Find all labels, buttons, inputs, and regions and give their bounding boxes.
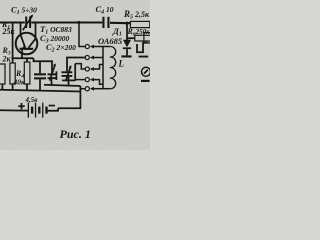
- svg-text:C1 5÷30: C1 5÷30: [11, 5, 37, 17]
- plug pin arrow 2: [93, 57, 104, 59]
- battery minus sign: [49, 105, 55, 107]
- wire R1 column: [12, 23, 14, 59]
- svg-text:4,5в: 4,5в: [25, 96, 38, 104]
- svg-text:25к: 25к: [2, 27, 16, 36]
- plug pin arrow 4: [94, 80, 104, 85]
- capacitor C3: [39, 61, 41, 73]
- bar upper right: [139, 56, 149, 58]
- capacitor C2b trimmer: [67, 58, 85, 72]
- telephone box: [144, 33, 151, 43]
- wire cluster ground G1: [44, 85, 80, 86]
- svg-text:C2 2×200: C2 2×200: [46, 42, 76, 54]
- socket ring: [142, 67, 151, 76]
- svg-text:40к: 40к: [13, 78, 26, 87]
- capacitor C4: [102, 17, 109, 28]
- wire base bus: [12, 57, 34, 59]
- capacitor C2a trimmer: [51, 61, 53, 73]
- telephone jack wire: [137, 43, 148, 53]
- connector contact 3: [75, 64, 85, 69]
- battery B 4.5V: [28, 103, 48, 118]
- wire R2 stub: [12, 84, 14, 90]
- plug pin arrow 3: [94, 65, 104, 70]
- resistor R6: [127, 37, 135, 39]
- svg-text:Рис. 1: Рис. 1: [60, 127, 91, 141]
- wire R4 stub: [26, 84, 28, 90]
- wire drop to R left: [12, 58, 14, 63]
- diode D1: [126, 23, 128, 40]
- wire tap bus: [102, 47, 104, 89]
- connector contact 5: [80, 88, 85, 90]
- svg-text:ОА685: ОА685: [98, 36, 123, 46]
- svg-text:2к: 2к: [2, 55, 12, 64]
- svg-text:L: L: [118, 59, 125, 69]
- transistor T1: [16, 33, 38, 55]
- wire battery minus link: [47, 108, 58, 110]
- plug pin arrow 5: [93, 88, 104, 90]
- connector contact 1: [79, 23, 85, 47]
- resistor R3 (left, clipped): [0, 64, 5, 84]
- wire top rail mid: [31, 21, 102, 23]
- capacitor C1: [25, 17, 31, 29]
- wire ground bus G2: [0, 90, 80, 92]
- resistor R5: [130, 21, 149, 27]
- wire drop right end: [34, 58, 54, 61]
- wire right drop: [58, 86, 80, 108]
- wire top rail right: [110, 22, 131, 25]
- connector contact 2: [85, 55, 89, 59]
- svg-text:C4 10: C4 10: [96, 4, 114, 16]
- wire R3 stub: [1, 84, 3, 90]
- bar lower right: [141, 80, 150, 82]
- plug pin arrow 1: [93, 46, 104, 48]
- battery plus sign: [18, 105, 24, 107]
- wire bottom rail left: [0, 109, 28, 111]
- svg-text:R6250к: R6250к: [127, 27, 151, 38]
- svg-text:R5 2,5к: R5 2,5к: [123, 9, 150, 21]
- resistor R4: [24, 62, 30, 84]
- node junction right: [125, 22, 128, 25]
- wire top rail left: [0, 21, 25, 23]
- wire C2b frame bar: [74, 64, 76, 81]
- node junction top rail: [77, 21, 80, 24]
- inductor L: [103, 46, 110, 48]
- connector contact 4: [75, 79, 85, 81]
- wire drop to R right: [26, 58, 28, 62]
- resistor R2: [10, 63, 15, 84]
